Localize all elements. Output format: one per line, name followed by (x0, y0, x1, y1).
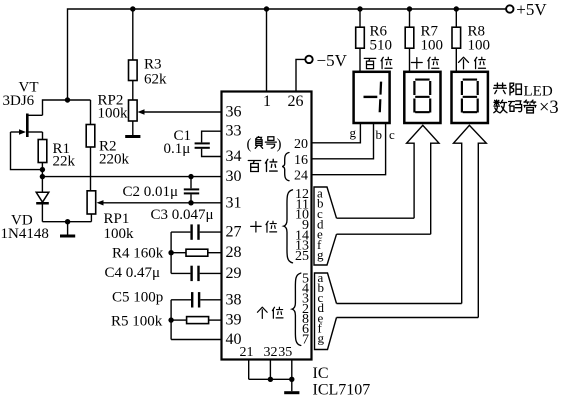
display DS2 tens box (404, 72, 440, 123)
op-amp U1 IC ICL7107 box (222, 92, 371, 399)
svg-text:g: g (350, 125, 357, 140)
bus arrow units (454, 125, 487, 317)
resistor R7 100 (405, 9, 443, 71)
pin 1 wire to +5V rail (263, 9, 271, 110)
svg-text:g: g (317, 247, 324, 262)
resistor R6 510 (356, 9, 392, 71)
svg-text:39: 39 (226, 312, 242, 329)
svg-text:1N4148: 1N4148 (1, 226, 49, 242)
capacitor C5 100p (112, 290, 222, 308)
+5V rail wire (68, 9, 507, 100)
svg-text:C5 100p: C5 100p (112, 290, 163, 306)
label bai wei display (364, 57, 392, 68)
pin numbers left column (226, 104, 242, 349)
node R1 bottom dots (40, 167, 45, 179)
svg-text:3DJ6: 3DJ6 (3, 93, 35, 109)
wire pin36 with RP2 wiper arrow (138, 109, 222, 114)
svg-text:36: 36 (226, 104, 242, 121)
capacitor C4 0.47u (105, 265, 222, 281)
svg-text:R3: R3 (144, 57, 162, 73)
display DS2 digit 8 (413, 79, 431, 114)
svg-text:21: 21 (240, 345, 254, 360)
svg-text:34: 34 (226, 148, 242, 165)
capacitor C3 0.047u (151, 207, 222, 240)
svg-text:100: 100 (421, 38, 444, 54)
wire tens segment buses (337, 218, 431, 234)
svg-text:C4 0.47μ: C4 0.47μ (105, 265, 161, 281)
svg-text:30: 30 (226, 168, 242, 185)
svg-text:100k: 100k (104, 226, 135, 242)
pin numbers 20 16 24 right column (294, 137, 308, 183)
label gong yang LED (494, 83, 553, 100)
svg-text:ICL7107: ICL7107 (313, 382, 371, 399)
transistor VT 3DJ6 (3, 80, 43, 140)
label (fu hao) negative sign (247, 137, 282, 153)
svg-text:31: 31 (226, 194, 242, 211)
svg-text:20: 20 (294, 137, 308, 152)
resistor R3 (129, 9, 168, 100)
svg-text:+5V: +5V (516, 0, 547, 19)
svg-text:100k: 100k (98, 106, 129, 122)
wire bottom node (42, 219, 91, 224)
svg-text:100: 100 (468, 38, 491, 54)
label shi wei left (251, 221, 277, 232)
svg-text:IC: IC (313, 365, 329, 382)
wire pin16 to display b (312, 123, 374, 159)
svg-text:16: 16 (294, 153, 308, 168)
svg-text:R4 160k: R4 160k (112, 246, 164, 262)
resistor R4 160k (112, 246, 222, 262)
svg-text:220k: 220k (99, 152, 130, 168)
capacitor C1 0.1u (164, 128, 222, 157)
svg-text:C3 0.047μ: C3 0.047μ (151, 207, 214, 223)
svg-text:35: 35 (278, 345, 292, 360)
potentiometer RP1 (87, 191, 134, 242)
svg-text:25: 25 (295, 249, 309, 264)
svg-text:c: c (389, 127, 395, 142)
svg-text:b: b (376, 127, 383, 142)
brace units (292, 273, 301, 345)
label ge wei left (257, 307, 283, 318)
wire gate feedback (11, 132, 43, 170)
wire integrator bus (170, 232, 172, 273)
svg-text:g: g (318, 331, 325, 346)
pins 21 32 35 bottom wires (240, 345, 295, 382)
wire pin40 line and osc bus (171, 300, 221, 340)
label shi wei display (411, 57, 438, 68)
svg-text:62k: 62k (144, 72, 167, 88)
svg-text:R5 100k: R5 100k (111, 314, 163, 330)
svg-text:510: 510 (370, 38, 393, 54)
svg-text:0.1μ: 0.1μ (164, 141, 191, 157)
label bai wei left (248, 159, 277, 171)
terminal -5V (305, 51, 347, 70)
svg-text:33: 33 (226, 123, 242, 140)
svg-text:): ) (277, 137, 282, 153)
label ge wei display (458, 57, 485, 69)
capacitor C2 0.01u (123, 177, 200, 203)
resistor R5 100k (111, 314, 222, 330)
svg-text:26: 26 (288, 93, 304, 110)
pin 26 wire to -5V terminal (288, 59, 306, 110)
display DS1 digit -1 (364, 82, 383, 113)
svg-text:24: 24 (294, 169, 308, 184)
display DS3 digit 8 (461, 79, 479, 114)
diode VD 1N4148 (1, 192, 49, 242)
svg-text:7: 7 (302, 332, 309, 347)
svg-text:38: 38 (226, 291, 242, 308)
resistor R1 (38, 140, 75, 193)
node units letter funnel (315, 270, 337, 350)
ground below RP2 (125, 135, 140, 138)
terminal +5V (506, 0, 547, 19)
label shu ma guan x3 (494, 98, 559, 118)
svg-text:RP1: RP1 (104, 211, 130, 227)
svg-text:32: 32 (264, 345, 278, 360)
wire pin31 with RP1 wiper arrow (97, 200, 222, 205)
wire units segment buses (337, 304, 479, 318)
ground below pin 35 (284, 379, 299, 394)
pin numbers tens group (295, 187, 309, 264)
brace hundreds (282, 153, 289, 181)
brace tens (284, 190, 293, 263)
wire pin20 to display g (312, 123, 361, 143)
bus arrow tens (407, 125, 439, 234)
svg-text:29: 29 (226, 265, 242, 282)
wire pin30 line (42, 174, 221, 179)
svg-text:C2 0.01μ: C2 0.01μ (123, 184, 179, 200)
pin labels g b c (350, 125, 396, 142)
resistor R8 100 (452, 9, 490, 71)
node rail junction dots (130, 6, 459, 11)
svg-text:×3: ×3 (539, 98, 559, 118)
potentiometer RP2 (98, 93, 138, 136)
ground below VD node (60, 222, 75, 238)
node tens letter funnel (314, 185, 337, 265)
wire pin24 to display c (312, 123, 386, 175)
node A drain junction (43, 97, 91, 115)
svg-text:27: 27 (226, 224, 242, 241)
svg-text:28: 28 (226, 244, 242, 261)
display DS3 units box (452, 72, 488, 123)
svg-text:22k: 22k (53, 154, 76, 170)
svg-text:(: ( (247, 137, 252, 153)
resistor R2 (86, 100, 129, 191)
svg-text:1: 1 (263, 93, 271, 110)
display DS1 hundreds box (354, 72, 390, 123)
svg-text:−5V: −5V (317, 51, 348, 70)
pin numbers units group (302, 272, 309, 348)
